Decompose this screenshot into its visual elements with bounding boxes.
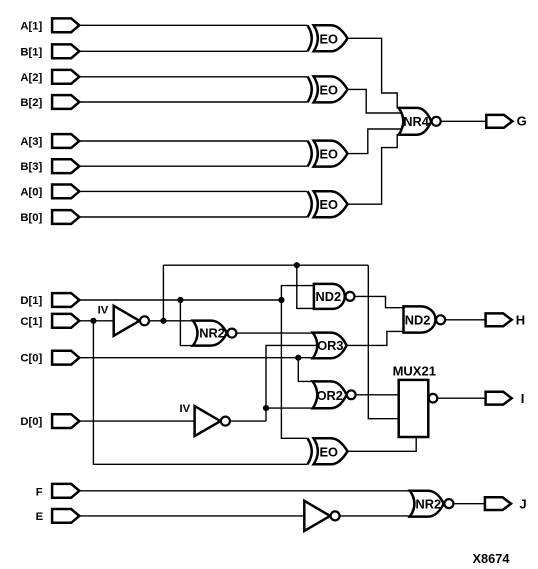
wire top rail down to MUX21 input 2 (368, 265, 399, 419)
input pin E (52, 509, 79, 523)
wire IV3 output to NR2b lower input (340, 515, 411, 517)
wire C[1] to IV1 (79, 320, 114, 322)
junction dot D[1] end (278, 297, 284, 303)
svg-text:C[0]: C[0] (20, 353, 42, 365)
wire B[2] to EO2 (79, 101, 307, 103)
wire NR2b output to pin J (454, 503, 485, 505)
xor gate EO3 input arc (308, 141, 312, 167)
bubble OR2 (347, 390, 356, 399)
wire EO2 output to NR4 input 2 (348, 89, 403, 113)
input pin B[0] (52, 210, 79, 224)
svg-text:B[3]: B[3] (20, 161, 42, 173)
wire D[1] to NR2 lower input (180, 300, 194, 346)
wire OR2 output to MUX21 input 1 (356, 394, 400, 396)
input pin B[2] (52, 95, 79, 109)
input pin A[0] (52, 185, 79, 199)
wire EO4 output to NR4 input 4 (348, 135, 400, 205)
svg-text:IV: IV (180, 403, 191, 415)
bubble IV3 (331, 511, 340, 520)
input pin A[1] (52, 18, 79, 32)
xor gate EO4 (314, 191, 348, 217)
wire MUX21 output to pin I (438, 397, 486, 399)
mux MUX21 body (399, 380, 429, 437)
input pin F (52, 484, 79, 498)
svg-text:A[1]: A[1] (20, 20, 42, 32)
wire F to NR2b (79, 490, 410, 492)
bubble NR2b (444, 499, 453, 508)
wire EO1 output to NR4 input 1 (348, 38, 400, 108)
xor gate EO3 (314, 141, 348, 167)
wire NR4 output to pin G (441, 120, 487, 122)
output pin G (486, 115, 512, 128)
junction dot C[0] (295, 355, 301, 361)
input pin B[1] (52, 44, 79, 58)
svg-text:X8674: X8674 (473, 551, 511, 566)
or gate OR3 (313, 333, 347, 359)
bubble ND2b (436, 315, 445, 324)
wire IV2 output (230, 420, 266, 422)
wire OR3 output to ND2b lower input (347, 331, 405, 345)
nand gate ND2b (404, 306, 436, 332)
svg-text:C[1]: C[1] (20, 316, 42, 328)
svg-text:B[1]: B[1] (20, 46, 42, 58)
bubble MUX21 (429, 394, 438, 403)
input pin A[3] (52, 134, 79, 148)
wire A[2] to EO2 (79, 76, 307, 78)
svg-text:J: J (519, 496, 526, 511)
nor gate NR4 (399, 108, 431, 135)
junction dot IV2 output (263, 405, 269, 411)
svg-text:A[0]: A[0] (20, 186, 42, 198)
xor gate EO4 input arc (308, 191, 312, 217)
xor gate EO1 input arc (308, 25, 312, 51)
svg-text:F: F (36, 487, 43, 499)
inverter IV1 (114, 306, 140, 336)
wire A[1] to EO1 (79, 24, 307, 26)
wire B[3] to EO3 (79, 165, 307, 167)
svg-text:EO: EO (320, 82, 339, 97)
wire node IV1out up to top rail (162, 265, 164, 321)
wire ND2b output to pin H (445, 319, 485, 321)
bubble NR4 (432, 117, 441, 126)
svg-text:OR3: OR3 (317, 338, 343, 353)
wire C[0] to OR3 (79, 357, 313, 359)
wire D[1] down to EO5 upper input (281, 300, 307, 438)
output pin I (486, 392, 512, 405)
inverter IV2 (195, 406, 221, 436)
bubble ND2 (346, 292, 355, 301)
bubble NR2 (227, 329, 236, 338)
nor gate NR2 (193, 321, 227, 346)
xor gate EO5 (314, 438, 348, 464)
nor gate OR2 (313, 381, 347, 408)
input pin B[3] (52, 159, 79, 173)
wire D[1] to ND2 upper input (281, 286, 314, 300)
junction dot D[1]/NR2 (177, 297, 183, 303)
wire D[1] (79, 299, 281, 301)
wire top rail (163, 264, 368, 266)
wire B[0] to EO4 (79, 216, 307, 218)
svg-text:A[3]: A[3] (20, 136, 42, 148)
junction dot IV1 output (160, 318, 166, 324)
svg-text:NR2: NR2 (199, 325, 225, 340)
output pin H (486, 313, 512, 326)
svg-text:H: H (516, 312, 525, 327)
svg-text:D[1]: D[1] (20, 295, 42, 307)
wire C[1] down to EO5 lower input (93, 321, 307, 465)
output pin J (485, 497, 511, 510)
wire EO3 output to NR4 input 3 (348, 129, 403, 154)
svg-text:E: E (36, 511, 44, 523)
svg-text:EO: EO (320, 147, 339, 162)
svg-text:A[2]: A[2] (20, 72, 42, 84)
svg-text:IV: IV (98, 304, 109, 316)
svg-text:B[2]: B[2] (20, 97, 42, 109)
svg-text:OR2: OR2 (317, 388, 343, 403)
svg-text:B[0]: B[0] (20, 212, 42, 224)
wire D[0] to IV2 (79, 420, 195, 422)
svg-text:ND2: ND2 (316, 289, 342, 304)
wire B[1] to EO1 (79, 50, 307, 52)
svg-text:G: G (517, 113, 527, 128)
svg-text:ND2: ND2 (405, 312, 431, 327)
svg-text:NR4: NR4 (403, 114, 429, 129)
svg-text:D[0]: D[0] (20, 416, 42, 428)
wire IV1 output to NR2 (149, 320, 194, 322)
wire EO5 output to MUX21 select (348, 438, 417, 452)
xor gate EO5 input arc (308, 438, 312, 464)
wire A[0] to EO4 (79, 190, 307, 192)
wire rail to ND2 lower input (297, 265, 315, 308)
svg-text:MUX21: MUX21 (393, 363, 436, 378)
xor gate EO1 (314, 25, 348, 51)
input pin D[0] (52, 414, 79, 428)
wire A[3] to EO3 (79, 140, 307, 142)
xor gate EO2 (314, 76, 348, 102)
junction dot top rail (294, 262, 300, 268)
nand gate ND2 (314, 284, 345, 309)
wire NR2 output to OR3 input 1 (236, 332, 313, 334)
nor gate NR2b (410, 491, 444, 517)
wire E to IV3 (79, 515, 305, 517)
bubble IV1 (140, 316, 149, 325)
junction dot C[1] (90, 318, 96, 324)
input pin C[0] (52, 351, 79, 365)
input pin C[1] (52, 314, 79, 328)
input pin D[1] (52, 293, 79, 307)
bubble IV2 (221, 417, 230, 426)
inverter IV3 (304, 501, 330, 531)
xor gate EO2 input arc (308, 76, 312, 102)
wire ND2 output to ND2b upper input (355, 296, 405, 307)
svg-text:I: I (521, 391, 525, 406)
wire IV2out branch to OR2 lower input (266, 407, 314, 409)
wire IV2out up to OR3 input 2 (266, 345, 318, 421)
svg-text:EO: EO (320, 197, 339, 212)
wire C[0] branch down to OR2 upper input (298, 358, 313, 382)
svg-text:NR2: NR2 (416, 496, 442, 511)
svg-text:EO: EO (320, 31, 339, 46)
svg-text:EO: EO (320, 444, 339, 459)
input pin A[2] (52, 70, 79, 84)
